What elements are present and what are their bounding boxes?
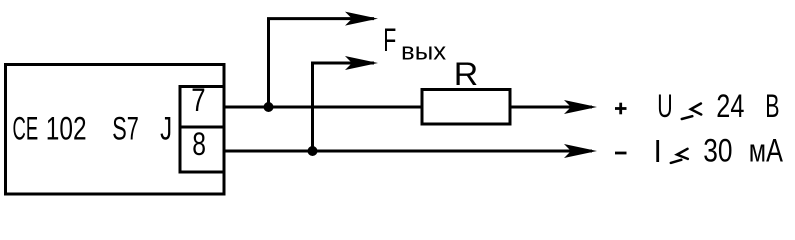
svg-text:S7: S7 (112, 111, 139, 147)
svg-text:F: F (383, 22, 396, 58)
svg-text:7: 7 (191, 82, 205, 118)
svg-text:30: 30 (703, 133, 732, 169)
svg-text:R: R (454, 56, 478, 92)
svg-text:В: В (765, 88, 779, 124)
svg-text:мА: мА (749, 133, 784, 169)
svg-text:J: J (160, 111, 172, 147)
svg-text:24: 24 (716, 88, 744, 124)
svg-text:U: U (657, 88, 672, 124)
svg-text:вых: вых (401, 38, 446, 65)
svg-text:CE: CE (13, 111, 39, 147)
svg-text:102: 102 (46, 111, 87, 147)
svg-text:8: 8 (192, 126, 206, 162)
